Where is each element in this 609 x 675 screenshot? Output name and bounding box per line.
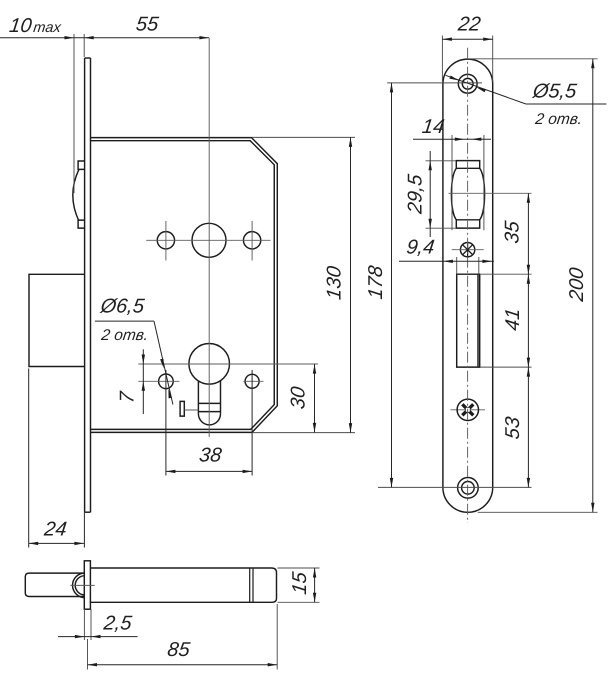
svg-text:41: 41	[502, 307, 524, 332]
svg-text:130: 130	[324, 265, 346, 301]
svg-text:85: 85	[166, 639, 192, 661]
svg-text:10: 10	[8, 15, 33, 37]
svg-text:35: 35	[502, 219, 524, 245]
svg-text:2 отв.: 2 отв.	[99, 327, 149, 344]
svg-text:15: 15	[289, 570, 311, 596]
svg-text:200: 200	[566, 266, 588, 303]
svg-text:30: 30	[287, 385, 309, 410]
svg-text:2 отв.: 2 отв.	[533, 111, 583, 128]
svg-text:max: max	[32, 20, 62, 36]
svg-text:38: 38	[198, 445, 224, 467]
svg-text:55: 55	[135, 14, 161, 36]
svg-text:22: 22	[456, 13, 482, 35]
svg-text:178: 178	[365, 264, 387, 301]
svg-text:29,5: 29,5	[405, 172, 427, 215]
svg-text:2,5: 2,5	[101, 613, 133, 635]
svg-text:9,4: 9,4	[405, 237, 435, 259]
svg-text:24: 24	[42, 519, 68, 541]
svg-text:14: 14	[421, 116, 446, 138]
svg-text:Ø6,5: Ø6,5	[98, 295, 146, 317]
svg-text:53: 53	[502, 416, 524, 441]
svg-text:Ø5,5: Ø5,5	[531, 80, 579, 102]
